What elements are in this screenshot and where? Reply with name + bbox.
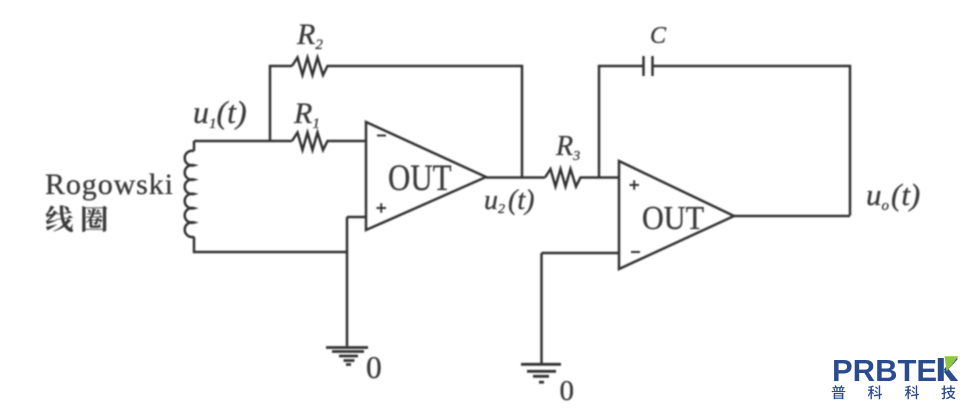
svg-text:0: 0 <box>560 375 575 407</box>
svg-text:uo(t): uo(t) <box>866 177 920 214</box>
svg-text:OUT: OUT <box>388 157 452 198</box>
svg-text:C: C <box>650 23 667 49</box>
svg-text:Rogowski: Rogowski <box>45 168 174 201</box>
svg-text:u2(t): u2(t) <box>484 185 534 217</box>
svg-text:OUT: OUT <box>642 200 704 237</box>
svg-text:0: 0 <box>366 350 382 385</box>
svg-text:PRBTE: PRBTE <box>832 353 937 388</box>
svg-text:u1(t): u1(t) <box>193 94 247 132</box>
